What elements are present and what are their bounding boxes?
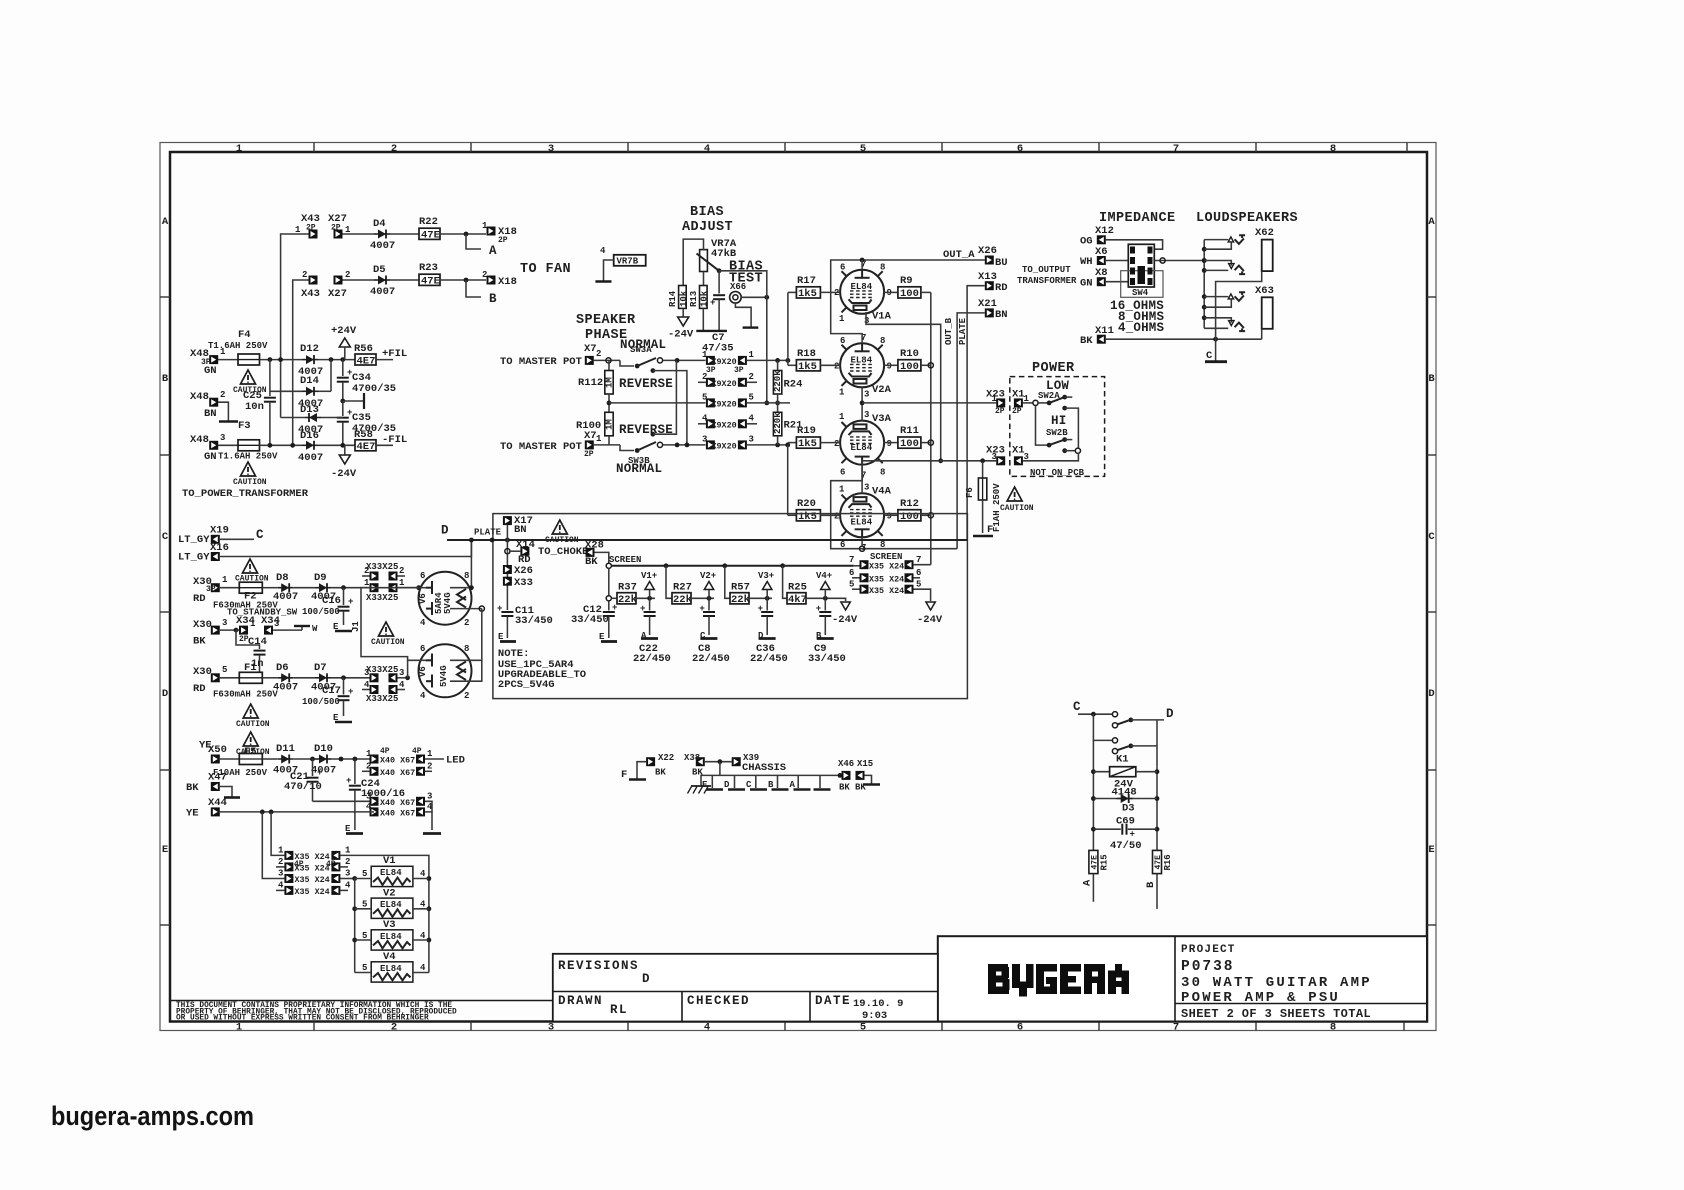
svg-text:V6: V6: [418, 593, 428, 604]
svg-text:C: C: [1073, 700, 1081, 714]
svg-text:BN: BN: [995, 309, 1008, 321]
-24V arrow under R14: [682, 308, 684, 317]
svg-text:R112: R112: [578, 377, 603, 389]
svg-text:4: 4: [420, 963, 426, 973]
connector X1 pin1: [1014, 398, 1023, 407]
plate join V3A/V4A: [831, 465, 957, 549]
svg-text:47E: 47E: [1154, 855, 1163, 870]
row5 wire: [609, 402, 706, 404]
svg-text:6: 6: [840, 263, 845, 273]
connector X48 pin2: [209, 398, 218, 407]
svg-text:X26: X26: [514, 565, 533, 577]
svg-text:1: 1: [427, 749, 433, 759]
svg-text:4007: 4007: [298, 452, 323, 464]
svg-text:+: +: [758, 604, 763, 614]
svg-text:1k5: 1k5: [798, 511, 817, 523]
svg-text:X12: X12: [1095, 225, 1114, 237]
svg-text:CHECKED: CHECKED: [687, 994, 750, 1008]
svg-text:R19: R19: [797, 425, 816, 437]
svg-text:CHASSIS: CHASSIS: [742, 762, 786, 774]
svg-text:X35 X24: X35 X24: [869, 562, 904, 572]
svg-text:33/450: 33/450: [515, 615, 553, 627]
svg-text:R10: R10: [900, 348, 919, 360]
svg-text:2: 2: [391, 143, 397, 155]
fuse F5: [220, 758, 240, 760]
svg-text:5V4G: 5V4G: [443, 592, 453, 614]
bias top wire: [683, 239, 703, 285]
svg-text:+: +: [497, 604, 502, 614]
svg-text:X33X25: X33X25: [366, 694, 398, 704]
connector X27 pin2: [334, 276, 343, 285]
svg-text:4: 4: [366, 802, 372, 812]
svg-text:3: 3: [864, 390, 869, 400]
svg-text:CAUTION: CAUTION: [1000, 504, 1034, 513]
svg-text:X48: X48: [190, 391, 209, 403]
svg-text:R24: R24: [784, 379, 803, 391]
svg-text:X16: X16: [210, 542, 229, 554]
A wire: [1092, 874, 1094, 902]
resistor R27 22k: [672, 593, 691, 604]
svg-text:X14: X14: [516, 539, 535, 551]
svg-text:4007: 4007: [311, 765, 336, 777]
svg-text:2P: 2P: [1012, 407, 1022, 416]
svg-text:1M: 1M: [605, 419, 615, 430]
svg-text:47/50: 47/50: [1110, 840, 1142, 852]
connector X7 pin1: [585, 440, 594, 449]
svg-text:R11: R11: [900, 425, 919, 437]
svg-text:22/450: 22/450: [750, 653, 788, 665]
connector pair X35 X24 row6: [852, 577, 860, 579]
-24V rail bar: [696, 330, 727, 332]
svg-text:D: D: [441, 524, 449, 538]
resistor R10 100: [884, 364, 898, 366]
ground E right: [301, 626, 303, 630]
svg-text:2: 2: [302, 270, 307, 280]
svg-text:4: 4: [420, 931, 426, 941]
svg-text:8: 8: [1330, 1022, 1336, 1034]
wire to R58: [318, 444, 355, 446]
svg-text:1: 1: [702, 350, 708, 360]
svg-text:CAUTION: CAUTION: [236, 720, 270, 729]
wire X6: [1106, 260, 1128, 262]
svg-text:B: B: [1145, 881, 1157, 888]
fuse F2: [220, 587, 240, 589]
connector X39: [732, 757, 741, 766]
svg-text:1: 1: [278, 846, 284, 856]
connector pair X35 X24 row2: [276, 866, 284, 868]
diode D9: [293, 587, 315, 589]
svg-text:7: 7: [916, 555, 921, 565]
svg-text:4P: 4P: [380, 747, 390, 756]
svg-text:X9X20: X9X20: [712, 379, 737, 389]
mid tap bar: [340, 399, 345, 404]
bus R19/R20 left: [787, 445, 789, 515]
tube V4A EL84 (flipped): [834, 483, 892, 553]
svg-text:5: 5: [362, 869, 367, 879]
svg-text:6: 6: [840, 468, 845, 478]
svg-text:DRAWN: DRAWN: [558, 994, 603, 1008]
svg-text:D16: D16: [300, 430, 319, 442]
svg-text:GN: GN: [1080, 277, 1093, 289]
svg-text:D13: D13: [300, 404, 319, 416]
caution low1: [243, 704, 258, 718]
right bus: [777, 360, 779, 370]
svg-text:D6: D6: [276, 662, 289, 674]
svg-text:1k5: 1k5: [798, 361, 817, 373]
ground X48.2: [218, 402, 228, 421]
svg-text:R37: R37: [618, 582, 637, 594]
svg-text:X35 X24: X35 X24: [295, 875, 330, 885]
resistor R25 4k7: [787, 593, 806, 604]
svg-text:+: +: [710, 298, 715, 308]
svg-text:1: 1: [596, 434, 602, 444]
caution 2: [241, 462, 256, 476]
svg-text:EL84: EL84: [380, 868, 402, 878]
cathode row1: [861, 387, 863, 420]
svg-text:HI: HI: [1051, 414, 1066, 428]
rail drop to R57: [725, 566, 730, 599]
wire to C17 node: [331, 677, 370, 679]
caution: [243, 732, 258, 746]
svg-text:2: 2: [220, 390, 225, 400]
svg-text:2: 2: [834, 439, 839, 449]
svg-text:3: 3: [1024, 452, 1029, 462]
svg-text:5: 5: [702, 393, 707, 403]
svg-text:-24V: -24V: [331, 468, 357, 480]
svg-text:R15: R15: [1100, 854, 1110, 870]
svg-text:D3: D3: [1122, 803, 1135, 815]
svg-text:+: +: [348, 597, 353, 607]
diode D4: [374, 230, 390, 239]
svg-text:3P: 3P: [706, 366, 716, 375]
svg-text:B: B: [489, 292, 498, 306]
svg-text:D: D: [642, 972, 651, 986]
svg-text:REVISIONS: REVISIONS: [558, 959, 639, 973]
svg-text:4: 4: [427, 802, 433, 812]
svg-text:+FIL: +FIL: [382, 348, 407, 360]
wire D13 row: [281, 417, 305, 419]
svg-text:X19: X19: [210, 525, 229, 537]
svg-text:R22: R22: [419, 216, 438, 228]
svg-text:1M: 1M: [605, 377, 615, 388]
svg-text:X38: X38: [684, 753, 700, 763]
tube V1A EL84: [834, 260, 892, 327]
svg-text:V1A: V1A: [872, 311, 892, 323]
svg-text:bugera-amps.com: bugera-amps.com: [51, 1101, 254, 1131]
rectifier tube V6b 5V4G: [419, 644, 472, 697]
svg-text:8: 8: [1330, 143, 1336, 155]
svg-text:POWER: POWER: [1032, 361, 1075, 376]
svg-text:R27: R27: [673, 582, 692, 594]
svg-text:5: 5: [860, 143, 866, 155]
capacitor C34: [342, 360, 344, 376]
svg-text:EL84: EL84: [851, 518, 873, 528]
svg-text:3: 3: [548, 143, 554, 155]
resistor R37 22k: [611, 597, 617, 599]
svg-text:OR USED WITHOUT EXPRESS WRITTE: OR USED WITHOUT EXPRESS WRITTEN CONSENT …: [176, 1015, 429, 1023]
+FIL: [376, 359, 393, 361]
connector X7 pin2: [585, 356, 594, 365]
svg-text:D11: D11: [276, 743, 295, 755]
svg-text:T1.6AH 250V: T1.6AH 250V: [208, 341, 268, 351]
svg-text:2P: 2P: [498, 236, 508, 245]
connector pair X9X20 row1: [706, 356, 715, 365]
jack X62 ring feed: [1204, 261, 1231, 266]
svg-text:3P: 3P: [206, 585, 216, 594]
svg-text:33/450: 33/450: [571, 614, 609, 626]
svg-text:3: 3: [274, 619, 279, 629]
caution: [1007, 487, 1022, 501]
svg-text:10k: 10k: [679, 290, 689, 307]
svg-text:6: 6: [849, 568, 854, 578]
resistor R112 1M: [608, 360, 610, 370]
resistor R23 47E: [419, 274, 440, 285]
resistor R13 10k: [703, 272, 705, 286]
svg-text:SW4: SW4: [1132, 288, 1149, 298]
-24V arrow left: [830, 598, 846, 601]
B: [988, 964, 1010, 994]
svg-text:X40 X67: X40 X67: [380, 798, 415, 808]
G: [1036, 964, 1057, 994]
svg-text:A: A: [1428, 216, 1435, 228]
svg-text:100/500: 100/500: [302, 607, 340, 617]
-FIL: [376, 444, 393, 446]
svg-text:TO_POWER_TRANSFORMER: TO_POWER_TRANSFORMER: [182, 488, 309, 500]
svg-text:A: A: [162, 216, 169, 228]
svg-text:OUT_A: OUT_A: [943, 249, 975, 261]
diode D11: [262, 758, 277, 760]
wire to C16 node: [331, 587, 370, 589]
svg-text:R20: R20: [797, 498, 816, 510]
svg-text:X26: X26: [978, 245, 997, 257]
OUT_A wire: [831, 260, 985, 343]
svg-text:+: +: [348, 687, 353, 697]
svg-text:2: 2: [464, 691, 469, 701]
svg-text:X30: X30: [193, 619, 212, 631]
connector X30 pin1: [211, 583, 220, 592]
svg-text:4E7: 4E7: [357, 356, 376, 368]
resistor R16 47E: [1153, 850, 1162, 873]
svg-text:6: 6: [1017, 143, 1023, 155]
connector X30 pin5: [211, 673, 220, 682]
svg-text:+: +: [346, 776, 351, 786]
switch SW3B: [620, 445, 634, 451]
capacitor C21: [312, 759, 314, 776]
svg-text:4: 4: [749, 414, 755, 424]
svg-text:LED: LED: [446, 755, 465, 767]
test point X66: [733, 295, 738, 300]
svg-text:X48: X48: [190, 434, 209, 446]
svg-text:3: 3: [399, 668, 404, 678]
reverse contact B: [651, 432, 656, 437]
svg-text:+: +: [1130, 830, 1135, 840]
svg-text:3: 3: [702, 435, 707, 445]
svg-text:220k: 220k: [773, 412, 783, 434]
svg-text:GN: GN: [204, 365, 217, 377]
X11 wire: [1106, 338, 1262, 340]
rail drop to R27: [666, 566, 672, 599]
svg-text:X33X25: X33X25: [366, 593, 398, 603]
wire nodes F3 row: [260, 444, 303, 446]
svg-text:EL84: EL84: [851, 356, 873, 366]
svg-text:J1: J1: [351, 621, 361, 632]
svg-text:CAUTION: CAUTION: [233, 478, 267, 487]
svg-text:RD: RD: [995, 282, 1008, 294]
caution: [241, 370, 256, 384]
wire: [293, 280, 309, 445]
svg-text:8: 8: [464, 644, 469, 654]
svg-text:TO FAN: TO FAN: [520, 262, 571, 277]
svg-text:+: +: [816, 604, 821, 614]
A: [1108, 964, 1129, 994]
svg-text:5: 5: [362, 931, 367, 941]
svg-text:7: 7: [1173, 1022, 1179, 1034]
svg-text:8: 8: [464, 571, 469, 581]
net A stub: [466, 234, 481, 249]
svg-text:2P: 2P: [306, 224, 316, 233]
wire X8: [1106, 281, 1128, 283]
svg-text:-FIL: -FIL: [382, 434, 407, 446]
svg-text:5V4G: 5V4G: [439, 665, 449, 687]
svg-text:V6: V6: [418, 666, 428, 677]
wire: [594, 444, 620, 446]
wire: [281, 234, 309, 418]
svg-text:D5: D5: [373, 264, 386, 276]
svg-text:-24V: -24V: [917, 614, 943, 626]
diode D10: [293, 758, 315, 760]
caution: [243, 559, 258, 573]
ground for VR7B: [604, 260, 614, 281]
connector X46 X15: [842, 771, 851, 780]
svg-text:GN: GN: [204, 451, 217, 463]
svg-text:1: 1: [366, 749, 372, 759]
svg-text:R23: R23: [419, 262, 438, 274]
left bus mid: [608, 394, 610, 412]
svg-text:X35 X24: X35 X24: [869, 575, 904, 585]
svg-text:2: 2: [464, 618, 469, 628]
svg-text:BN: BN: [204, 408, 217, 420]
X14 branch: [506, 540, 508, 551]
svg-text:100: 100: [900, 361, 919, 373]
diode D5: [374, 276, 390, 285]
connector X18 pin2: [487, 276, 496, 285]
jack X62 tip return: [1204, 242, 1231, 249]
svg-text:8: 8: [880, 263, 885, 273]
svg-text:X15: X15: [857, 759, 873, 769]
svg-text:2: 2: [702, 372, 707, 382]
SW2B throw to rail: [1062, 448, 1067, 453]
relay contact 1 arm: [1112, 723, 1117, 728]
svg-text:RD: RD: [193, 593, 206, 605]
connector X1 pin3: [1014, 456, 1023, 465]
svg-text:5: 5: [916, 580, 921, 590]
capacitor C17: [343, 678, 345, 695]
diode D16: [302, 441, 318, 450]
svg-text:YE: YE: [186, 808, 199, 820]
svg-text:33/450: 33/450: [808, 653, 846, 665]
SW4 output wire: [1155, 260, 1204, 262]
svg-text:LT_GY: LT_GY: [178, 534, 210, 546]
connector X21: [985, 308, 994, 317]
svg-text:C16: C16: [322, 595, 341, 607]
svg-text:NOT_ON_PCB: NOT_ON_PCB: [1030, 468, 1085, 478]
svg-text:P0738: P0738: [1181, 959, 1235, 975]
OUT_B wire from X21: [957, 313, 985, 549]
svg-text:1: 1: [839, 412, 845, 422]
svg-text:LOUDSPEAKERS: LOUDSPEAKERS: [1196, 211, 1298, 226]
capacitor C12: [606, 596, 611, 601]
svg-text:3: 3: [364, 668, 369, 678]
svg-text:X30: X30: [193, 666, 212, 678]
svg-text:2: 2: [427, 762, 432, 772]
jack bus vertical: [1203, 240, 1205, 329]
TITLE BLOCK: [938, 936, 1427, 1021]
svg-text:4: 4: [278, 881, 284, 891]
svg-text:A: A: [489, 244, 498, 258]
svg-text:9: 9: [887, 362, 892, 372]
svg-text:X22: X22: [658, 753, 674, 763]
svg-text:3: 3: [220, 433, 225, 443]
svg-text:4: 4: [420, 691, 426, 701]
svg-text:+: +: [317, 768, 322, 778]
ground right: [423, 832, 441, 835]
svg-text:1: 1: [992, 394, 998, 404]
svg-text:47E: 47E: [1090, 855, 1099, 870]
svg-text:4: 4: [704, 1022, 710, 1034]
R13 bottom wire: [702, 308, 704, 331]
X66 ground wire: [735, 303, 751, 327]
connector pair X35 X24 row4: [276, 889, 284, 891]
diode D12: [302, 355, 318, 364]
heater buses: [354, 879, 356, 973]
svg-text:SW2B: SW2B: [1046, 428, 1068, 438]
connector pair X40 X67 row2: [362, 770, 370, 772]
svg-text:VR7B: VR7B: [617, 257, 639, 267]
svg-text:4: 4: [345, 881, 351, 891]
svg-text:TRANSFORMER: TRANSFORMER: [1017, 276, 1077, 286]
svg-text:10k: 10k: [700, 290, 710, 307]
connector pair X9X20 row3: [706, 440, 715, 449]
svg-text:X40 X67: X40 X67: [380, 768, 415, 778]
svg-text:6: 6: [1017, 1022, 1023, 1034]
svg-text:4: 4: [420, 618, 426, 628]
svg-text:1k5: 1k5: [798, 438, 817, 450]
svg-text:SCREEN: SCREEN: [870, 552, 902, 562]
svg-text:D14: D14: [300, 375, 319, 387]
tube V2A EL84: [834, 333, 892, 400]
svg-text:X35 X24: X35 X24: [295, 864, 330, 874]
svg-text:X66: X66: [730, 282, 746, 292]
svg-text:BK: BK: [585, 556, 598, 568]
svg-text:3: 3: [864, 483, 869, 493]
PROPRIETARY NOTE: [170, 1001, 553, 1023]
svg-text:3: 3: [864, 410, 869, 420]
connector X17: [503, 516, 512, 525]
svg-text:D8: D8: [276, 572, 289, 584]
svg-text:BK: BK: [1080, 335, 1093, 347]
svg-text:1: 1: [839, 485, 845, 495]
connector X23 pin3: [996, 456, 1005, 465]
svg-text:-24V: -24V: [832, 614, 858, 626]
svg-text:BN: BN: [514, 524, 527, 536]
jack X62 ring return: [1204, 269, 1228, 271]
svg-text:X27: X27: [328, 288, 347, 300]
svg-text:4: 4: [600, 246, 606, 256]
caution: [552, 520, 567, 534]
svg-text:POWER AMP & PSU: POWER AMP & PSU: [1181, 990, 1340, 1006]
diode D7: [293, 677, 315, 679]
svg-text:X9X20: X9X20: [712, 421, 737, 431]
